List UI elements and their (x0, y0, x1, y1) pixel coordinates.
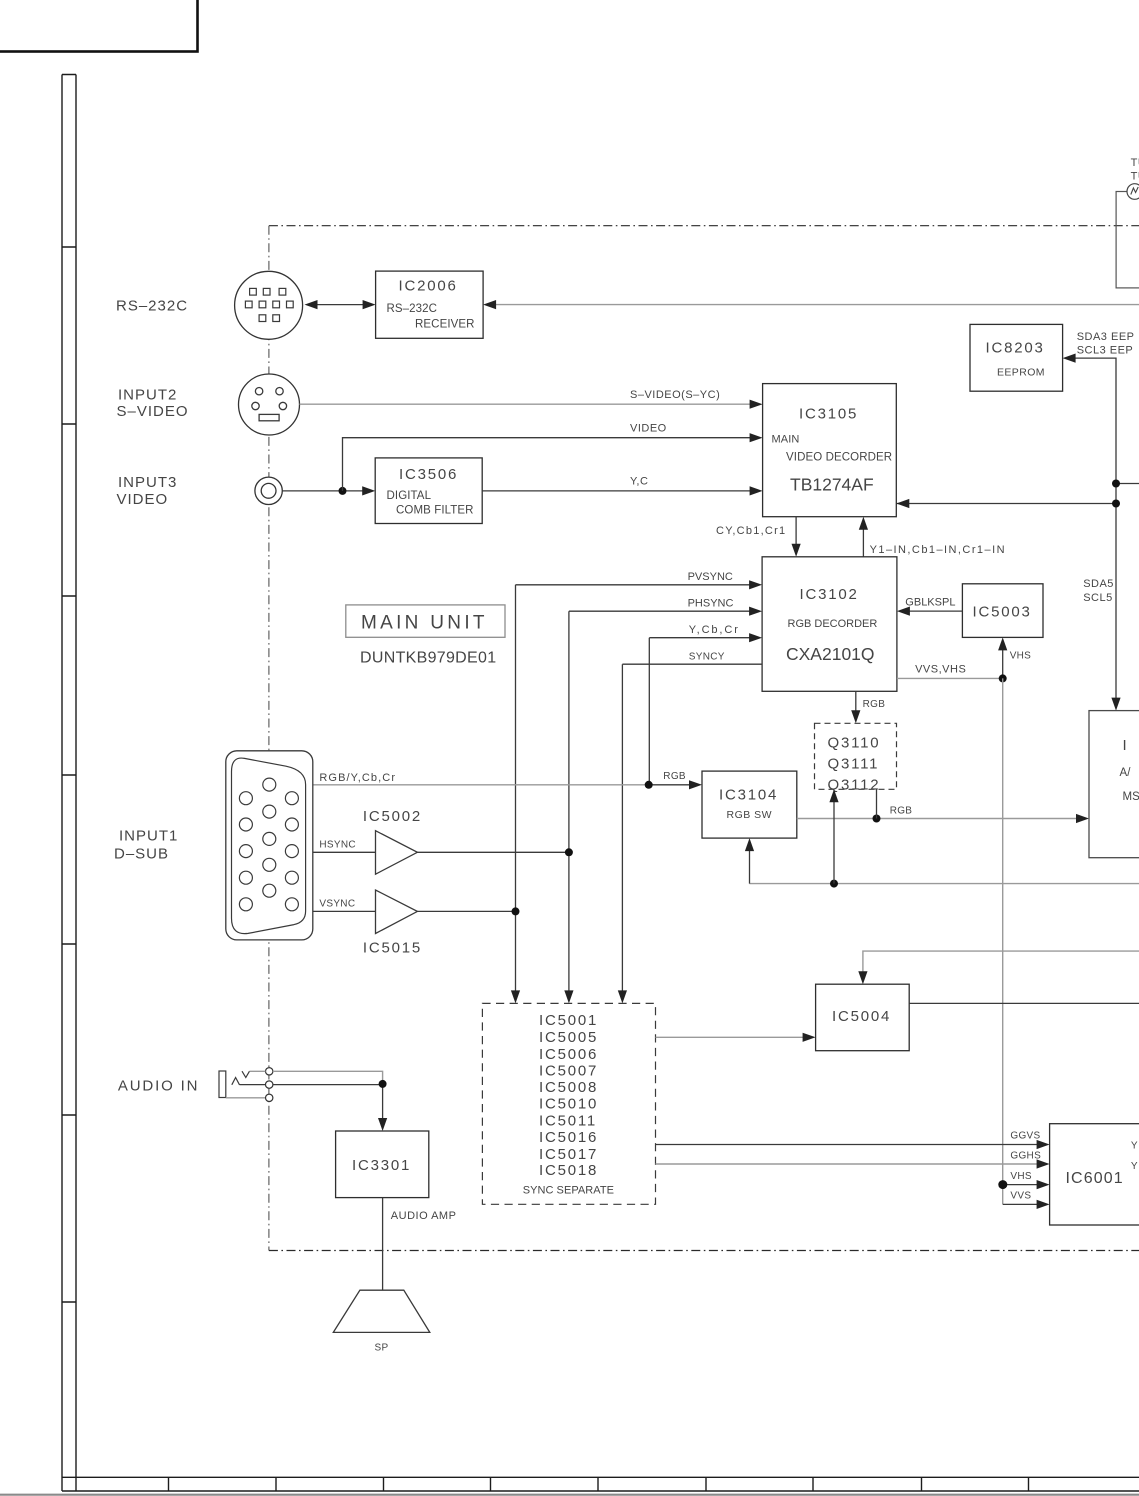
svg-text:VIDEO DECORDER: VIDEO DECORDER (786, 452, 892, 464)
svg-text:RGB: RGB (890, 806, 913, 817)
wire CY,Cb1,Cr1 from IC3105 to IC3102 (716, 517, 801, 557)
speaker SP (333, 1290, 430, 1353)
svg-text:IC5008: IC5008 (539, 1079, 598, 1096)
main unit dash-dot boundary (left edge) (268, 226, 270, 1251)
wire RGB from D-SUB into IC3104 (313, 771, 702, 789)
title block corner rectangle (top left) (0, 0, 198, 52)
node RGB junction below Q3110 (873, 815, 881, 823)
IC3104 RGB switch (702, 771, 797, 838)
svg-text:SYNCY: SYNCY (689, 652, 725, 663)
op-amp IC5015 buffer (363, 890, 422, 957)
svg-text:IC5015: IC5015 (363, 940, 422, 957)
svg-text:IC5005: IC5005 (539, 1029, 598, 1046)
wire PVSYNC into IC3102 (516, 571, 763, 589)
node junction video branch (339, 487, 347, 495)
wire RGB from IC3102 down to Q3110 (851, 691, 885, 723)
wire PHSYNC into IC3102 (569, 598, 762, 616)
wire VSYNC from D-SUB to buffer (313, 899, 376, 912)
node VSYNC junction (512, 907, 520, 915)
svg-text:D–SUB: D–SUB (114, 845, 169, 862)
IC5004 block (816, 984, 910, 1050)
svg-text:I: I (1123, 737, 1129, 754)
svg-text:AUDIO IN: AUDIO IN (118, 1077, 199, 1094)
wire Y,Cb,Cr into IC3102 (649, 624, 762, 785)
wire into IC2006 from right edge of sheet (483, 300, 1139, 309)
sheet bottom border with zone ticks (62, 1477, 1139, 1491)
node VHS junction (998, 1180, 1007, 1189)
wire GGHS from sync separator to IC6001 (656, 1150, 1050, 1168)
svg-text:SDA3 EEP: SDA3 EEP (1077, 331, 1135, 343)
wire Y,C from IC3506 to IC3105 (482, 476, 762, 496)
svg-text:TU: TU (1131, 171, 1139, 183)
main unit dash-dot boundary (bottom edge) (269, 1250, 1139, 1252)
wire RS-232C connector to IC2006 (double arrow) (305, 300, 376, 309)
wire VVS,VHS from IC3102 (897, 664, 1003, 679)
wire into IC5004 top from right (858, 951, 1139, 984)
node HSYNC junction (565, 848, 573, 856)
transistors Q3110 Q3111 Q3112 (dashed group) (815, 723, 897, 793)
svg-text:GGVS: GGVS (1010, 1131, 1040, 1142)
svg-text:IC5017: IC5017 (539, 1146, 598, 1163)
svg-text:RS–232C: RS–232C (116, 298, 188, 315)
svg-text:RGB SW: RGB SW (727, 809, 773, 821)
svg-text:Y,C: Y,C (630, 476, 648, 488)
node RGB junction at riser (645, 781, 653, 789)
svg-text:MAIN: MAIN (772, 434, 800, 446)
wire RGB out of IC3104 to A/D converter (797, 806, 1089, 824)
svg-text:A/: A/ (1120, 767, 1132, 779)
svg-text:IC3506: IC3506 (399, 466, 458, 483)
node I2C junction upper (1112, 480, 1120, 488)
svg-text:DUNTKB979DE01: DUNTKB979DE01 (360, 650, 496, 667)
wire sync separator to IC5004 (656, 1033, 816, 1042)
svg-text:RGB: RGB (663, 771, 686, 782)
svg-text:SDA5: SDA5 (1083, 578, 1114, 590)
main unit dash-dot boundary (top edge) (269, 225, 1139, 227)
svg-text:Q3111: Q3111 (828, 756, 880, 773)
svg-text:CY,Cb1,Cr1: CY,Cb1,Cr1 (716, 525, 786, 537)
svg-text:PVSYNC: PVSYNC (688, 571, 733, 583)
wire PVSYNC riser down to sync separator (511, 585, 520, 1004)
connector INPUT3 VIDEO RCA jack (255, 477, 282, 504)
svg-text:Y,Cb,Cr: Y,Cb,Cr (689, 624, 740, 636)
svg-text:TB1274AF: TB1274AF (790, 475, 874, 495)
node I2C junction lower (1112, 500, 1120, 508)
svg-text:Q3112: Q3112 (828, 777, 881, 794)
svg-text:INPUT2: INPUT2 (118, 387, 177, 404)
svg-text:CXA2101Q: CXA2101Q (786, 644, 875, 664)
IC A/D MSP block (cut off at sheet edge) (1089, 711, 1139, 858)
svg-text:RGB: RGB (863, 699, 886, 710)
svg-text:SCL5: SCL5 (1083, 592, 1113, 604)
svg-text:RGB DECORDER: RGB DECORDER (788, 618, 878, 630)
wire SYNCY into IC3102 (618, 652, 762, 1004)
svg-text:GGHS: GGHS (1010, 1150, 1041, 1161)
svg-text:SYNC SEPARATE: SYNC SEPARATE (523, 1185, 614, 1197)
svg-text:Y: Y (1131, 1141, 1138, 1152)
svg-text:VHS: VHS (1010, 651, 1031, 662)
svg-text:IC5003: IC5003 (973, 603, 1032, 620)
svg-text:VIDEO: VIDEO (117, 491, 169, 508)
svg-text:Y1–IN,Cb1–IN,Cr1–IN: Y1–IN,Cb1–IN,Cr1–IN (870, 544, 1006, 556)
svg-text:VIDEO: VIDEO (630, 423, 667, 435)
wire GBLKSPL from IC5003 to IC3102 (897, 597, 963, 616)
wire Y1-IN,Cb1-IN,Cr1-IN from IC3102 to IC3105 (859, 517, 1006, 557)
wire up into Q3110 group bottom (829, 789, 838, 883)
IC3301 audio amp (336, 1131, 429, 1198)
svg-text:RGB/Y,Cb,Cr: RGB/Y,Cb,Cr (319, 772, 396, 784)
svg-text:Y: Y (1131, 1161, 1138, 1172)
svg-text:TU: TU (1131, 157, 1139, 169)
svg-text:VVS,VHS: VVS,VHS (915, 664, 966, 676)
node audio junction (379, 1080, 387, 1088)
svg-text:IC3301: IC3301 (352, 1157, 411, 1174)
wire IC5004 output to right (909, 1002, 1139, 1004)
svg-text:INPUT1: INPUT1 (119, 828, 178, 845)
tuner block (cut off at sheet edge) (1116, 157, 1139, 288)
svg-text:DIGITAL: DIGITAL (387, 490, 432, 502)
svg-text:MAIN UNIT: MAIN UNIT (361, 613, 488, 634)
IC5003 block (962, 584, 1043, 638)
svg-text:IC2006: IC2006 (399, 277, 458, 294)
connector INPUT1 D-SUB 15 pin (226, 751, 313, 940)
wire audio top contact (250, 1071, 383, 1084)
svg-text:VSYNC: VSYNC (319, 899, 355, 910)
svg-text:IC5007: IC5007 (539, 1063, 598, 1080)
wire GGVS from sync separator to IC6001 (656, 1131, 1050, 1150)
wire audio signal to IC3301 (240, 1084, 388, 1131)
wire IC3301 to speaker (382, 1198, 384, 1291)
sheet bottom page edge line (0, 1494, 1139, 1496)
svg-text:S–VIDEO: S–VIDEO (117, 403, 189, 420)
wire S-VIDEO(S-YC) to IC3105 (300, 389, 763, 409)
svg-text:IC5004: IC5004 (832, 1008, 891, 1025)
svg-text:IC5001: IC5001 (539, 1012, 598, 1029)
svg-text:IC5002: IC5002 (363, 808, 422, 825)
wire feedback into IC3104 bottom (745, 838, 1139, 884)
svg-text:IC3102: IC3102 (800, 586, 859, 603)
IC3506 digital comb filter (375, 458, 482, 524)
wire VHS up into IC5003 (998, 637, 1031, 678)
svg-text:Q3110: Q3110 (828, 735, 881, 752)
wire I2C bus to IC8203 and down to MSP block (896, 354, 1139, 711)
IC3102 RGB decorder CXA2101Q (762, 557, 897, 692)
svg-text:SCL3 EEP: SCL3 EEP (1077, 344, 1134, 356)
wire HSYNC from D-SUB to buffer (313, 840, 376, 853)
connector J RS-232C DIN socket (235, 271, 303, 339)
svg-text:IC3105: IC3105 (799, 406, 858, 423)
svg-text:RS–232C: RS–232C (387, 303, 438, 315)
IC5001 group sync separate (dashed) (482, 1003, 655, 1204)
node junction on feedback line (830, 880, 838, 888)
svg-text:S–VIDEO(S–YC): S–VIDEO(S–YC) (630, 389, 720, 401)
wire VSYNC buffer output to PVSYNC riser (417, 910, 515, 912)
connector AUDIO IN jack (219, 1068, 273, 1102)
svg-text:SP: SP (375, 1343, 389, 1354)
IC3105 main video decorder TB1274AF (763, 384, 897, 517)
label SDA3 EEP / SCL3 EEP (1077, 331, 1135, 356)
svg-text:IC6001: IC6001 (1066, 1170, 1124, 1187)
IC6001 block (cut off at sheet edge) (1050, 1124, 1139, 1225)
svg-text:INPUT3: INPUT3 (118, 474, 177, 491)
label SDA5 / SCL5 (1083, 578, 1114, 604)
tuner antenna input symbol (1127, 184, 1139, 200)
svg-text:IC8203: IC8203 (986, 340, 1045, 357)
op-amp IC5002 buffer (363, 808, 422, 874)
wire Q3110 group to RGB line (876, 789, 878, 818)
svg-text:RECEIVER: RECEIVER (415, 319, 475, 331)
IC2006 RS-232C receiver (376, 271, 484, 338)
sheet left border with zone ticks (62, 75, 76, 1492)
svg-text:MS: MS (1123, 791, 1139, 803)
svg-text:IC5006: IC5006 (539, 1046, 598, 1063)
svg-text:IC3104: IC3104 (719, 787, 778, 804)
connector INPUT2 S-VIDEO socket (239, 374, 300, 435)
MAIN UNIT label box (346, 605, 505, 637)
wire PHSYNC riser down to sync separator (564, 611, 573, 1003)
wire VHS/VVS riser down to IC6001 (1002, 678, 1004, 1204)
svg-text:IC5018: IC5018 (539, 1162, 598, 1179)
wire VHS into IC6001 (1003, 1171, 1050, 1189)
node VVS,VHS junction (999, 674, 1007, 682)
wire VVS into IC6001 (1003, 1191, 1050, 1209)
svg-text:EEPROM: EEPROM (997, 367, 1045, 379)
wire VIDEO jack to IC3506 (282, 486, 375, 495)
svg-text:AUDIO AMP: AUDIO AMP (391, 1210, 457, 1222)
wire VIDEO branch to IC3105 (343, 423, 763, 491)
svg-text:HSYNC: HSYNC (319, 840, 356, 851)
svg-text:IC5016: IC5016 (539, 1129, 598, 1146)
wire HSYNC buffer output to PHSYNC riser (417, 851, 569, 853)
svg-text:PHSYNC: PHSYNC (688, 598, 734, 610)
svg-text:GBLKSPL: GBLKSPL (905, 597, 955, 609)
IC8203 EEPROM (970, 324, 1063, 391)
svg-text:VVS: VVS (1010, 1191, 1031, 1202)
svg-text:VHS: VHS (1010, 1171, 1031, 1182)
svg-text:COMB FILTER: COMB FILTER (396, 505, 474, 517)
svg-text:IC5011: IC5011 (539, 1112, 597, 1129)
svg-text:IC5010: IC5010 (539, 1096, 598, 1113)
